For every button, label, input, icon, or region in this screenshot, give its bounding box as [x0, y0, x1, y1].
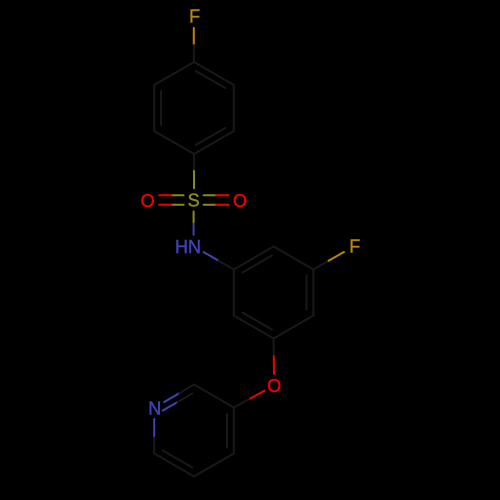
- bond S-N (sulfonamide): [193, 212, 195, 235]
- wire B3-LL3: [154, 454, 194, 477]
- ring3 inner double line B3=LL3: [163, 451, 193, 468]
- ring2 inner double line UL2=T2: [242, 256, 272, 273]
- bond C1-F1 (to fluorine, top): [193, 28, 195, 62]
- wire LR3-B3: [194, 454, 234, 477]
- wire LL1-UL1: [153, 85, 155, 131]
- ring1 inner double line LL1=UL1: [160, 91, 162, 125]
- wire B2-LL2: [234, 316, 274, 339]
- svg-text:F: F: [189, 7, 200, 27]
- double bond S=O left, upper line: [159, 194, 183, 196]
- wire UR3-LR3: [233, 408, 235, 454]
- wire T1-UR1: [194, 62, 234, 85]
- bond O-C(pyridine): [234, 391, 265, 408]
- svg-text:S: S: [188, 190, 200, 210]
- ring 2 benzene (central fluorophenyl) outline: [234, 247, 314, 339]
- svg-text:O: O: [141, 191, 155, 211]
- wire LL2-UL2: [233, 270, 235, 316]
- ring 1 benzene (4-fluorophenyl) outline: [154, 62, 234, 154]
- ring2 inner double line UR2=LR2: [306, 276, 308, 310]
- wire LR2-B2: [274, 316, 314, 339]
- double bond S=O right, upper line: [204, 194, 229, 196]
- bond C-N3 (pyridine left vertical): [153, 419, 155, 454]
- wire UR2-LR2: [312, 270, 314, 316]
- svg-text:F: F: [349, 236, 360, 256]
- wire LR1-B1: [194, 131, 234, 154]
- bond N-C(ring2): [204, 252, 234, 269]
- double bond S=O left, lower line: [159, 204, 183, 206]
- wire UL2-T2: [234, 247, 274, 270]
- wire T3-UR3: [194, 385, 234, 408]
- ring3 inner double line UR3=LR3: [226, 414, 228, 448]
- bond N3=C(top) pyridine, inner double line: [163, 394, 193, 411]
- wire B1-LL1: [154, 131, 194, 154]
- bond C-O ether (ring2 bottom to O): [273, 339, 275, 375]
- svg-text:O: O: [233, 191, 247, 211]
- wire UR1-LR1: [233, 85, 235, 131]
- ring1 inner double line T1=UR1: [196, 71, 226, 88]
- wire UL1-T1: [154, 62, 194, 85]
- svg-text:HN: HN: [175, 237, 201, 257]
- bond N3=C(top) pyridine, main line: [164, 385, 194, 403]
- ring 3 pyridine outline: [154, 385, 234, 477]
- svg-text:O: O: [267, 376, 281, 396]
- svg-text:N: N: [148, 399, 161, 419]
- wire T2-UR2: [274, 247, 314, 270]
- double bond S=O right, lower line: [204, 204, 229, 206]
- bond C4-S: [193, 154, 195, 188]
- ring1 inner double line LR1=B1: [196, 128, 226, 145]
- bond C-F2 (ring2 to fluorine right): [313, 252, 344, 270]
- ring2 inner double line B2=LL2: [242, 313, 272, 330]
